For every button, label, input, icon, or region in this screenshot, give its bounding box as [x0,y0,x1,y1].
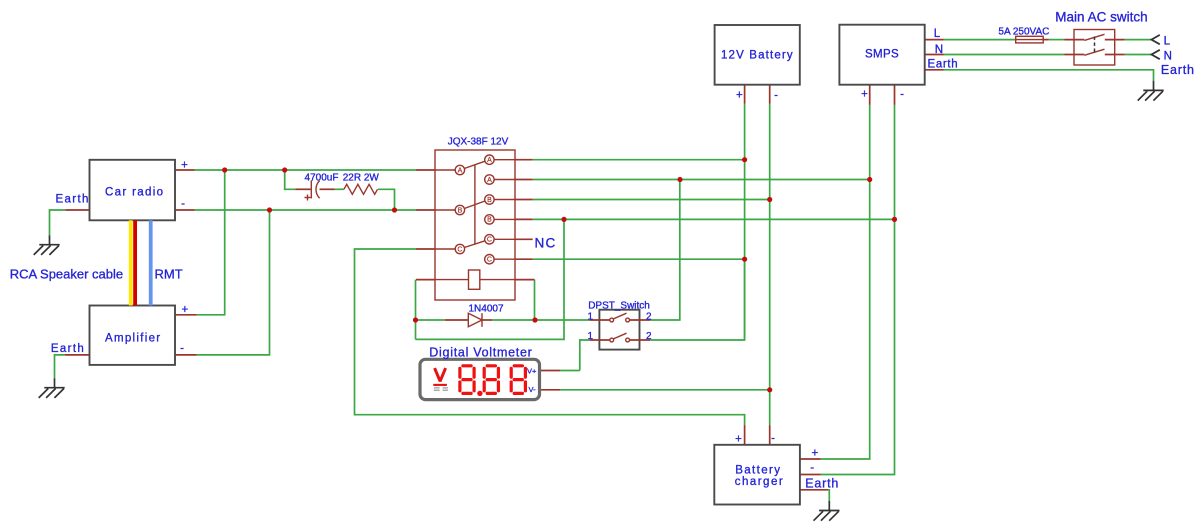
svg-text:L: L [1164,35,1171,47]
svg-text:Earth: Earth [56,193,90,205]
svg-text:+: + [736,89,743,101]
svg-text:12V Battery: 12V Battery [721,49,794,61]
svg-text:C: C [487,257,492,264]
svg-text:4700uF: 4700uF [305,172,339,183]
svg-text:+: + [181,159,188,171]
svg-text:B: B [487,217,492,224]
svg-text:-: - [774,89,778,101]
svg-text:5A 250VAC: 5A 250VAC [998,27,1049,38]
svg-text:Car radio: Car radio [105,187,164,199]
svg-text:-: - [810,462,814,474]
svg-text:2: 2 [646,331,652,342]
svg-text:SMPS: SMPS [865,49,899,61]
svg-text:B: B [487,197,492,204]
svg-text:RMT: RMT [155,266,183,281]
svg-text:C: C [457,246,462,253]
svg-text:-: - [181,198,185,210]
svg-text:A: A [487,157,492,164]
svg-text:22R 2W: 22R 2W [343,172,380,183]
svg-text:+: + [811,448,818,460]
svg-text:V+: V+ [527,366,537,375]
svg-text:A: A [458,167,463,174]
svg-text:+: + [735,433,742,445]
svg-text:V-: V- [529,385,537,394]
svg-text:C: C [487,237,492,244]
svg-text:NC: NC [535,236,557,251]
svg-text:+: + [861,88,868,100]
svg-text:Battery: Battery [735,465,781,477]
svg-text:charger: charger [735,476,785,488]
svg-text:Earth: Earth [51,343,85,355]
svg-text:N: N [1164,50,1172,62]
svg-text:Earth: Earth [928,58,959,70]
svg-text:Digital Voltmeter: Digital Voltmeter [429,345,532,359]
svg-text:Amplifier: Amplifier [105,333,161,345]
svg-text:L: L [934,28,941,40]
svg-text:-: - [771,433,775,445]
svg-text:1N4007: 1N4007 [468,303,503,314]
svg-text:Earth: Earth [805,477,839,491]
svg-text:-: - [900,88,904,100]
svg-text:+: + [181,304,188,316]
svg-text:Main AC switch: Main AC switch [1055,10,1147,25]
svg-text:1: 1 [587,311,593,322]
svg-text:Earth: Earth [1161,63,1195,77]
svg-text:JQX-38F 12V: JQX-38F 12V [448,136,509,147]
svg-text:1: 1 [587,331,593,342]
svg-text:-: - [180,342,184,354]
svg-text:DPST_Switch: DPST_Switch [588,301,650,312]
svg-text:RCA Speaker cable: RCA Speaker cable [10,266,123,281]
svg-text:N: N [935,44,943,56]
svg-text:A: A [487,177,492,184]
svg-text:B: B [458,207,463,214]
svg-text:2: 2 [646,311,652,322]
